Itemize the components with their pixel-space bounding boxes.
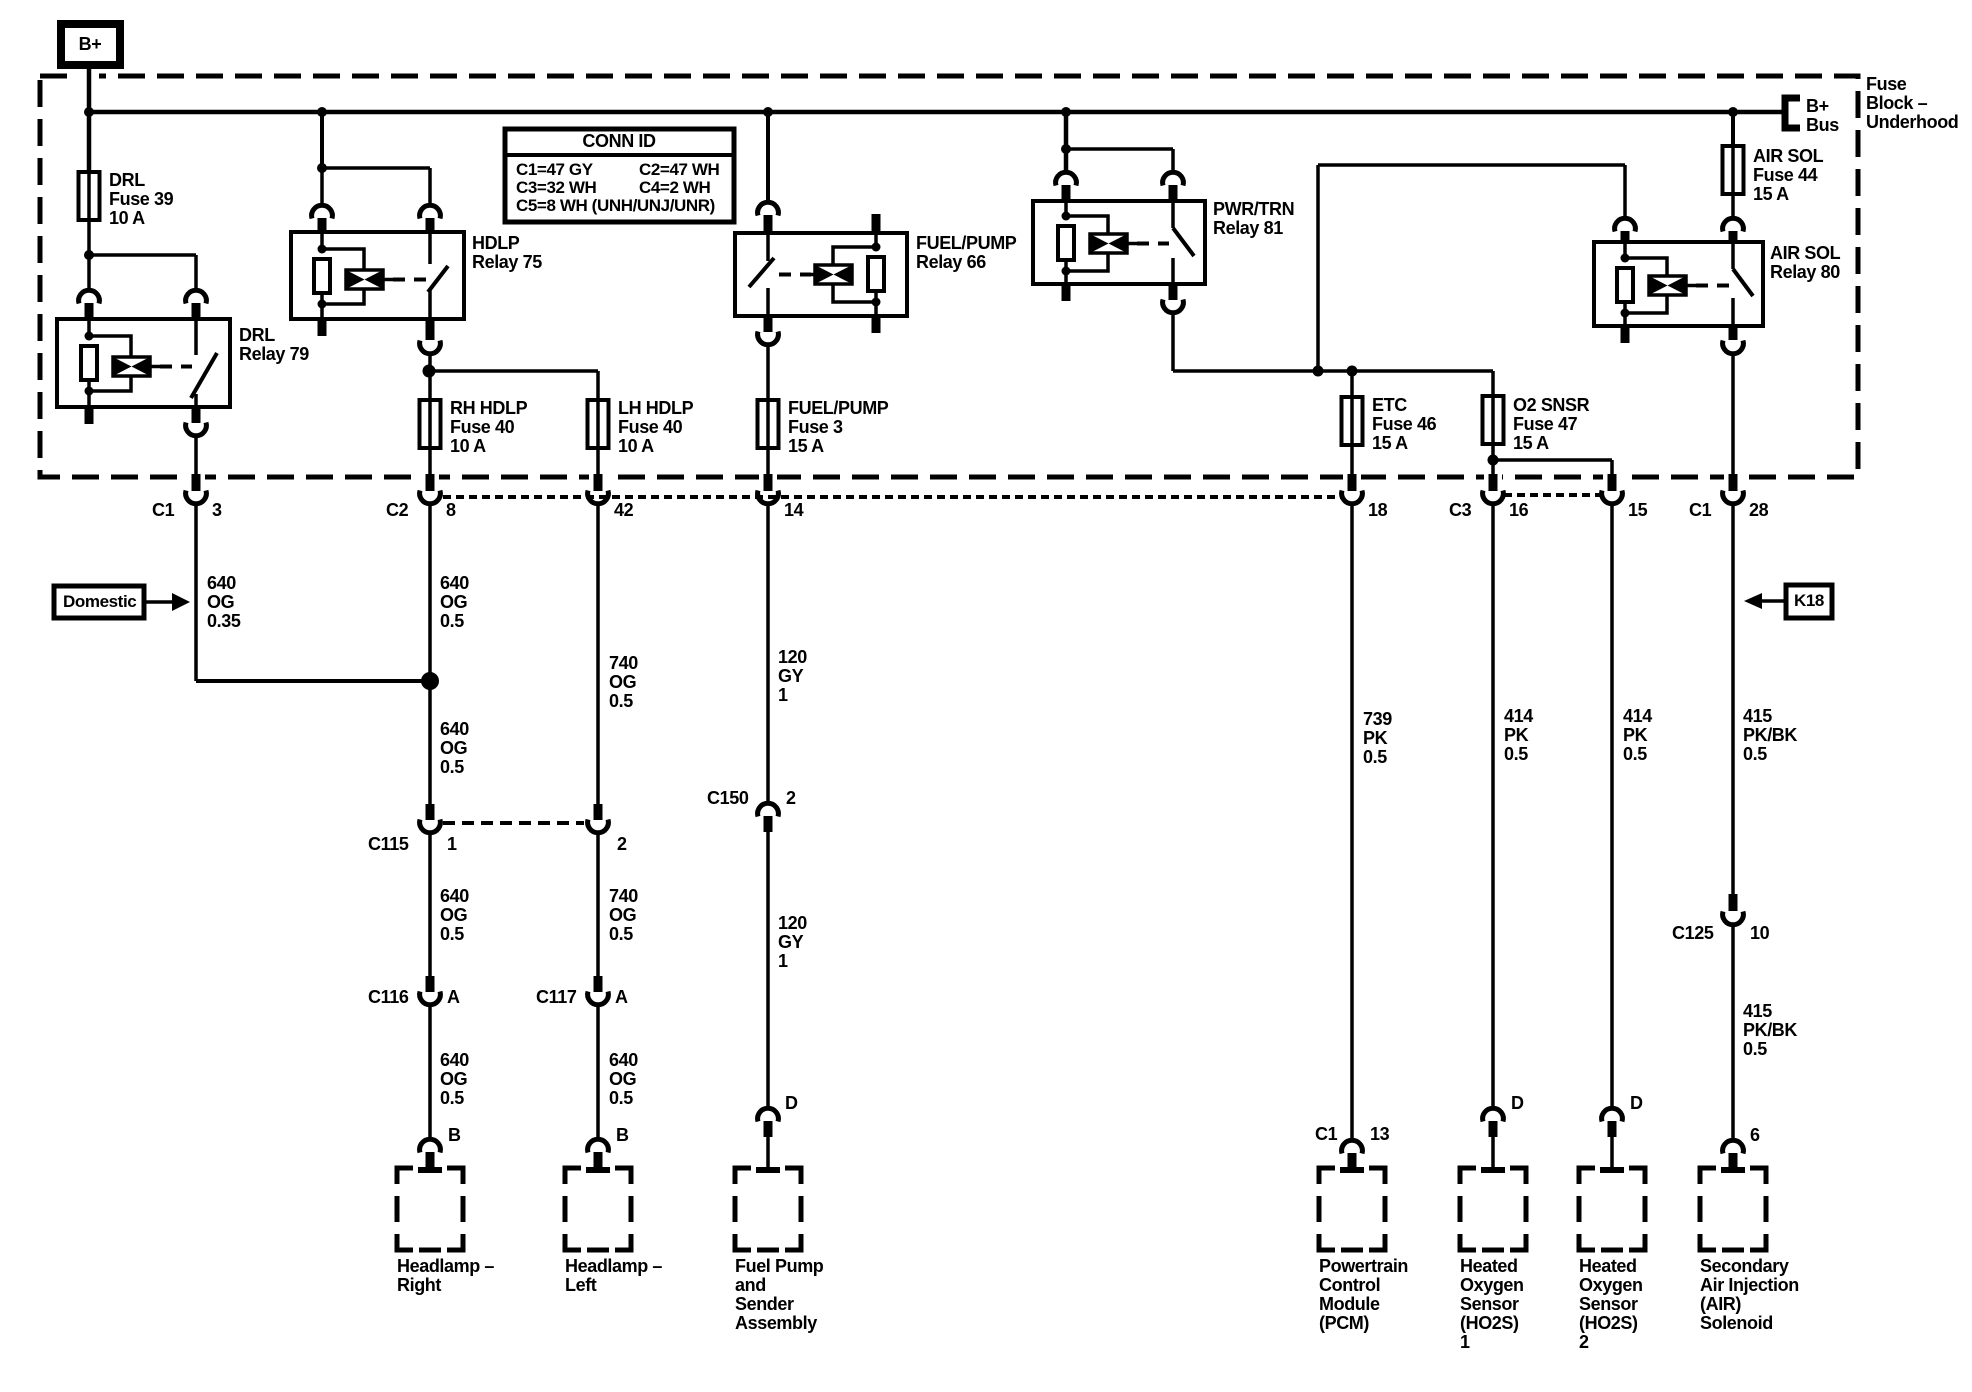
wire down to HDLP switch pin	[428, 168, 432, 205]
wire relay79 coil pin internal	[87, 319, 91, 336]
svg-text:Right: Right	[397, 1275, 441, 1295]
svg-text:(PCM): (PCM)	[1319, 1313, 1369, 1333]
svg-text:Fuel Pump: Fuel Pump	[735, 1256, 824, 1276]
svg-text:Domestic: Domestic	[63, 592, 136, 611]
relay DRL Relay 79 box	[57, 319, 230, 407]
connector pin B headlamp right	[420, 1139, 441, 1152]
svg-text:0.5: 0.5	[440, 757, 464, 777]
wire relay75 switch fixed contact	[428, 232, 432, 264]
connector pin arc relay66 switch input	[758, 202, 779, 215]
fuse FUEL/PUMP Fuse 3 15A	[766, 400, 770, 448]
CONN ID table header separator	[505, 153, 734, 157]
node junction HDLP feed split	[317, 163, 327, 173]
svg-text:Headlamp –: Headlamp –	[397, 1256, 494, 1276]
wire bus to PWR/TRN relay	[1064, 112, 1069, 172]
arrow K18 points to wire	[1762, 599, 1786, 603]
svg-text:C116: C116	[368, 987, 409, 1007]
svg-text:640: 640	[440, 1050, 469, 1070]
svg-text:B: B	[448, 1125, 461, 1145]
wire to ETC fuse 46	[1350, 371, 1354, 397]
wire 740 OG 0.5 from 42	[596, 504, 600, 804]
connector C2 pin 42	[594, 474, 603, 491]
svg-text:0.5: 0.5	[1623, 744, 1647, 764]
svg-text:Fuse: Fuse	[1866, 74, 1907, 94]
svg-text:120: 120	[778, 647, 807, 667]
component Heated Oxygen Sensor 2 box	[1579, 1168, 1645, 1250]
svg-text:PK: PK	[1504, 725, 1529, 745]
pin relay75 switch output stub	[426, 319, 435, 340]
svg-text:O2 SNSR: O2 SNSR	[1513, 395, 1590, 415]
wire LH fuse to connector 42	[596, 448, 600, 474]
svg-text:Air Injection: Air Injection	[1700, 1275, 1799, 1295]
terminal bar HO2S2	[1600, 1167, 1624, 1173]
wire B+ bus horizontal	[89, 110, 1782, 115]
connector pin arc relay80 switch output	[1723, 341, 1744, 354]
fuse O2 SNSR Fuse 47 15A	[1491, 396, 1495, 444]
Domestic option box	[54, 586, 144, 618]
node junction fuse 47 split	[1488, 455, 1499, 466]
wire relay75 coil link	[383, 278, 393, 282]
svg-text:2: 2	[1579, 1332, 1589, 1352]
svg-text:0.35: 0.35	[207, 611, 241, 631]
svg-text:DRL: DRL	[109, 170, 145, 190]
wire relay66 output to Fuse 3	[766, 345, 770, 400]
arrow Domestic points to wire	[144, 600, 172, 604]
svg-text:640: 640	[207, 573, 236, 593]
wire relay80 output to connector C1-28	[1731, 354, 1735, 474]
node bus junction at PWR/TRN feed	[1061, 107, 1071, 117]
connector pin arc relay81 coil input	[1056, 172, 1077, 185]
svg-text:640: 640	[440, 886, 469, 906]
svg-text:8: 8	[446, 500, 456, 520]
svg-text:A: A	[615, 987, 628, 1007]
connector pin D fuel pump	[758, 1108, 779, 1121]
svg-text:C2: C2	[386, 500, 409, 520]
svg-text:Sender: Sender	[735, 1294, 794, 1314]
connector C2 pin 18	[1348, 474, 1357, 491]
coil relay75 winding	[346, 270, 383, 289]
svg-text:OG: OG	[609, 905, 636, 925]
wire to O2 SNSR fuse 47	[1491, 371, 1495, 396]
svg-text:FUEL/PUMP: FUEL/PUMP	[788, 398, 889, 418]
svg-text:OG: OG	[609, 1069, 636, 1089]
dashed actuation link relay79	[160, 365, 192, 369]
connector C125 pin 10	[1729, 894, 1738, 911]
connector pin B headlamp left	[588, 1139, 609, 1152]
connector pin arc relay75 switch output	[420, 341, 441, 354]
node relay79 coil bottom	[85, 387, 94, 396]
svg-text:Relay 80: Relay 80	[1770, 262, 1840, 282]
svg-text:OG: OG	[207, 592, 234, 612]
svg-text:FUEL/PUMP: FUEL/PUMP	[916, 233, 1017, 253]
svg-text:C117: C117	[536, 987, 577, 1007]
svg-text:0.5: 0.5	[609, 924, 633, 944]
svg-text:K18: K18	[1794, 591, 1824, 610]
connector C115 pin 1	[426, 804, 435, 820]
pin relay66 coil ground stub	[872, 316, 881, 333]
svg-text:OG: OG	[440, 1069, 467, 1089]
dotted harness connector line C2 row	[443, 495, 1341, 499]
wire fuse 44 to AIR SOL relay switch	[1731, 194, 1735, 218]
terminal bar AIR solenoid	[1721, 1167, 1745, 1173]
wire relay75 switch to bottom	[428, 289, 432, 319]
svg-text:C1: C1	[152, 500, 175, 520]
connector pin arc relay81 switch input	[1163, 172, 1184, 185]
svg-text:OG: OG	[440, 738, 467, 758]
svg-text:640: 640	[440, 573, 469, 593]
svg-text:1: 1	[1460, 1332, 1470, 1352]
coil relay79 winding	[113, 357, 150, 376]
wire relay75 coil loop	[322, 249, 364, 319]
resistor relay80 coil suppression	[1617, 268, 1633, 302]
node junction ETC fuse tap	[1347, 366, 1358, 377]
svg-text:0.5: 0.5	[440, 1088, 464, 1108]
CONN ID table outer box	[505, 129, 734, 222]
svg-text:Underhood: Underhood	[1866, 112, 1958, 132]
svg-text:2: 2	[786, 788, 796, 808]
relay HDLP Relay 75 box	[291, 232, 464, 319]
svg-text:A: A	[447, 987, 460, 1007]
svg-text:Fuse 44: Fuse 44	[1753, 165, 1818, 185]
connector pin arc relay66 switch output	[758, 332, 779, 345]
wire relay81 coil loop	[1066, 216, 1108, 284]
pin relay79 switch output stub	[192, 407, 201, 423]
wire 739 PK 0.5 from 18 to PCM	[1350, 504, 1354, 1140]
component Heated Oxygen Sensor 1 box	[1460, 1168, 1526, 1250]
switch blade relay75	[428, 266, 448, 292]
wire relay66 switch to bottom	[766, 288, 770, 316]
svg-text:16: 16	[1509, 500, 1529, 520]
svg-text:C3=32 WH: C3=32 WH	[516, 178, 597, 197]
svg-text:10 A: 10 A	[618, 436, 654, 456]
svg-text:28: 28	[1749, 500, 1769, 520]
switch blade relay80	[1733, 269, 1753, 296]
node bus junction at HDLP feed	[317, 107, 327, 117]
wire relay81 switch pin internal	[1171, 201, 1175, 228]
wire fuse 3 to connector 14	[766, 448, 770, 474]
connector C1 pin 13 PCM	[1342, 1140, 1363, 1153]
node relay81 coil bottom	[1062, 267, 1071, 276]
coil relay81 winding	[1090, 234, 1127, 253]
wire stub to HO2S2 box	[1610, 1137, 1614, 1168]
connector C3 pin 16	[1489, 474, 1498, 491]
fuse LH HDLP Fuse 40 10A	[596, 400, 600, 448]
svg-text:Block –: Block –	[1866, 93, 1928, 113]
wire 740 OG 0.5 C115 to C117	[596, 833, 600, 976]
svg-text:0.5: 0.5	[609, 1088, 633, 1108]
wire B+ feed down to Fuse 39	[87, 65, 92, 172]
wire relay79 switch fixed contact	[194, 319, 198, 355]
svg-text:AIR SOL: AIR SOL	[1753, 146, 1824, 166]
svg-text:and: and	[735, 1275, 766, 1295]
svg-text:1: 1	[778, 685, 788, 705]
wire 120 GY 1 from 14	[766, 504, 770, 803]
connector C150 pin 2	[758, 803, 779, 816]
wire stub to fuel pump box	[766, 1137, 770, 1168]
wire 414 PK 0.5 from 15 to HO2S2	[1610, 504, 1614, 1108]
connector pin arc relay80 switch input	[1723, 218, 1744, 231]
svg-text:(HO2S): (HO2S)	[1579, 1313, 1638, 1333]
terminal bar headlamp right	[418, 1167, 442, 1173]
wire stub to HO2S1 box	[1491, 1137, 1495, 1168]
node relay80 coil top	[1621, 254, 1630, 263]
svg-text:C4=2 WH: C4=2 WH	[639, 178, 710, 197]
svg-text:C150: C150	[707, 788, 749, 808]
svg-text:D: D	[1511, 1093, 1524, 1113]
wire bus to HDLP relay	[320, 112, 324, 172]
svg-text:RH HDLP: RH HDLP	[450, 398, 528, 418]
wire RH fuse to connector C2-8	[428, 448, 432, 474]
wire fuse39 to DRL relay coil	[87, 220, 91, 290]
wire relay81 switch fixed bottom	[1171, 258, 1175, 284]
connector C2 pin 8	[426, 474, 435, 491]
node relay66 coil bottom	[872, 298, 881, 307]
connector C2 pin 14	[764, 474, 773, 491]
fuse AIR SOL Fuse 44 15A	[1731, 146, 1735, 194]
dashed actuation link relay81	[1137, 242, 1169, 246]
svg-text:15 A: 15 A	[788, 436, 824, 456]
wire relay81 coil pin internal	[1064, 201, 1068, 216]
svg-text:120: 120	[778, 913, 807, 933]
svg-text:Module: Module	[1319, 1294, 1380, 1314]
pin relay81 switch output stub	[1169, 284, 1178, 300]
svg-text:6: 6	[1750, 1125, 1760, 1145]
wire jog to DRL relay switch pin	[89, 253, 196, 257]
terminal bar PCM	[1340, 1167, 1364, 1173]
pin relay79 coil ground stub	[85, 407, 94, 424]
svg-text:B+: B+	[1806, 96, 1829, 116]
svg-text:13: 13	[1370, 1124, 1390, 1144]
svg-text:ETC: ETC	[1372, 395, 1407, 415]
resistor relay66 coil suppression	[868, 257, 884, 291]
svg-text:0.5: 0.5	[1743, 744, 1767, 764]
wire 414 PK 0.5 from C3-16 to HO2S1	[1491, 504, 1495, 1108]
wire relay80 coil link	[1686, 284, 1696, 288]
wire relay79 switch to bottom	[194, 394, 198, 407]
svg-text:Fuse 39: Fuse 39	[109, 189, 174, 209]
relay FUEL/PUMP Relay 66 box	[735, 233, 907, 316]
fuse ETC Fuse 46 15A	[1350, 397, 1354, 445]
pin relay81 coil ground stub	[1062, 284, 1071, 301]
svg-text:Sensor: Sensor	[1579, 1294, 1638, 1314]
svg-text:PK/BK: PK/BK	[1743, 1020, 1797, 1040]
svg-text:Control: Control	[1319, 1275, 1380, 1295]
wire 640 OG 0.5 C116 to headlamp	[428, 1005, 432, 1139]
pin relay80 coil ground stub	[1621, 326, 1630, 343]
node junction 640 OG splice	[421, 672, 439, 690]
node junction PWR/TRN feed split	[1061, 144, 1071, 154]
wire fuse 46 to connector 18	[1350, 445, 1354, 474]
wire jog to PWR/TRN switch pin	[1066, 147, 1173, 151]
wire relay66 link to coil	[811, 273, 815, 277]
svg-text:18: 18	[1368, 500, 1388, 520]
terminal bar headlamp left	[586, 1167, 610, 1173]
node relay75 coil bottom	[318, 300, 327, 309]
component Fuel Pump and Sender Assembly box	[735, 1168, 801, 1250]
pin relay66 switch output stub	[764, 316, 773, 332]
node relay66 coil top	[872, 243, 881, 252]
connector pin arc DRL relay switch input	[186, 290, 207, 303]
node junction RH/LH fuse split	[423, 365, 436, 378]
fuse block underhood dashed border	[40, 76, 1858, 477]
svg-text:15 A: 15 A	[1753, 184, 1789, 204]
svg-text:Relay 81: Relay 81	[1213, 218, 1283, 238]
svg-text:740: 740	[609, 653, 638, 673]
connector pin D HO2S2	[1602, 1108, 1623, 1121]
wire 120 GY 1 C150 to fuel pump	[766, 832, 770, 1108]
wire 640 OG 0.5 from C2-8	[428, 504, 432, 804]
wire relay81 output feeds fuses 46/47	[1173, 369, 1493, 373]
wire down to DRL relay switch pin	[194, 255, 198, 290]
wire relay79 output to connector C1-3	[194, 436, 198, 474]
wire relay80 coil pin internal	[1623, 242, 1627, 258]
svg-text:3: 3	[212, 500, 222, 520]
dashed connector link C115	[443, 821, 584, 825]
svg-text:Relay 66: Relay 66	[916, 252, 986, 272]
svg-text:PK: PK	[1623, 725, 1648, 745]
svg-text:0.5: 0.5	[609, 691, 633, 711]
svg-text:Solenoid: Solenoid	[1700, 1313, 1773, 1333]
svg-text:Fuse 47: Fuse 47	[1513, 414, 1578, 434]
node junction below fuse 39	[84, 250, 94, 260]
connector C3 pin 15	[1608, 474, 1617, 491]
svg-text:PK: PK	[1363, 728, 1388, 748]
wire down to AIR SOL relay coil pin	[1623, 165, 1627, 218]
dashed actuation link relay75	[393, 278, 426, 282]
switch blade relay66	[749, 258, 774, 287]
svg-text:415: 415	[1743, 1001, 1772, 1021]
svg-text:640: 640	[609, 1050, 638, 1070]
svg-text:10 A: 10 A	[109, 208, 145, 228]
component Secondary Air Injection Solenoid box	[1700, 1168, 1766, 1250]
dashed actuation link relay66	[779, 273, 811, 277]
wire relay75 coil pin internal	[320, 232, 324, 249]
svg-text:Assembly: Assembly	[735, 1313, 817, 1333]
svg-text:OG: OG	[440, 905, 467, 925]
relay PWR/TRN Relay 81 box	[1033, 201, 1205, 284]
svg-text:(HO2S): (HO2S)	[1460, 1313, 1519, 1333]
wire 415 PK/BK 0.5 C125 to AIR solenoid	[1731, 925, 1735, 1140]
svg-text:C1: C1	[1315, 1124, 1338, 1144]
B+ Bus right bracket terminal	[1785, 98, 1800, 128]
wire relay79 coil to switch link	[150, 365, 160, 369]
wire 640 OG 0.5 C117 to headlamp	[596, 1005, 600, 1139]
wire 415 PK/BK 0.5 from C1-28	[1731, 504, 1735, 894]
svg-text:414: 414	[1623, 706, 1652, 726]
connector C116 pin A	[426, 976, 435, 992]
svg-text:Bus: Bus	[1806, 115, 1839, 135]
svg-text:C1: C1	[1689, 500, 1712, 520]
svg-text:Sensor: Sensor	[1460, 1294, 1519, 1314]
svg-text:C5=8 WH (UNH/UNJ/UNR): C5=8 WH (UNH/UNJ/UNR)	[516, 196, 715, 215]
svg-text:1: 1	[778, 951, 788, 971]
svg-text:15 A: 15 A	[1513, 433, 1549, 453]
svg-text:C2=47 WH: C2=47 WH	[639, 160, 720, 179]
dotted harness connector line C3 row	[1504, 493, 1601, 497]
coil relay66 winding	[815, 265, 852, 284]
svg-text:14: 14	[784, 500, 804, 520]
wire relay80 switch pin internal	[1731, 242, 1735, 269]
node relay80 coil bottom	[1621, 309, 1630, 318]
terminal bar fuel pump	[756, 1167, 780, 1173]
connector C1 pin 3	[192, 474, 201, 491]
svg-text:OG: OG	[440, 592, 467, 612]
svg-text:OG: OG	[609, 672, 636, 692]
svg-text:D: D	[785, 1093, 798, 1113]
svg-text:GY: GY	[778, 932, 804, 952]
svg-text:Headlamp –: Headlamp –	[565, 1256, 662, 1276]
svg-text:C1=47 GY: C1=47 GY	[516, 160, 594, 179]
svg-text:Fuse 46: Fuse 46	[1372, 414, 1437, 434]
svg-text:10: 10	[1750, 923, 1770, 943]
svg-text:414: 414	[1504, 706, 1533, 726]
svg-text:10 A: 10 A	[450, 436, 486, 456]
wire relay81 coil link	[1127, 242, 1137, 246]
connector pin arc DRL relay coil input	[79, 290, 100, 303]
svg-text:Secondary: Secondary	[1700, 1256, 1789, 1276]
svg-text:15: 15	[1628, 500, 1648, 520]
svg-text:Fuse 3: Fuse 3	[788, 417, 843, 437]
svg-text:Relay 75: Relay 75	[472, 252, 542, 272]
svg-text:Fuse 40: Fuse 40	[618, 417, 683, 437]
svg-text:Fuse 40: Fuse 40	[450, 417, 515, 437]
wire fuse 47 down	[1491, 444, 1495, 474]
svg-text:DRL: DRL	[239, 325, 275, 345]
relay AIR SOL Relay 80 box	[1594, 242, 1763, 326]
svg-text:2: 2	[617, 834, 627, 854]
connector pin arc relay81 switch output	[1163, 300, 1184, 313]
svg-text:Oxygen: Oxygen	[1460, 1275, 1524, 1295]
svg-text:CONN ID: CONN ID	[582, 131, 656, 151]
svg-text:Heated: Heated	[1579, 1256, 1637, 1276]
B+ power terminal box	[61, 24, 120, 65]
connector pin arc HDLP relay coil input	[312, 205, 333, 218]
connector pin 6 AIR solenoid	[1723, 1140, 1744, 1153]
wire fuse 47 branch to pin 15	[1493, 458, 1612, 462]
wire 640 OG 0.5 C115 to C116	[428, 833, 432, 976]
wire bus to AIR SOL fuse 44	[1731, 112, 1735, 146]
wire relay66 coil loop	[833, 233, 876, 316]
fuse RH HDLP Fuse 40 10A	[428, 400, 432, 448]
component Headlamp - Left box	[565, 1168, 631, 1250]
svg-text:1: 1	[447, 834, 457, 854]
node bus junction at FUEL/PUMP feed	[763, 107, 773, 117]
svg-text:Relay 79: Relay 79	[239, 344, 309, 364]
switch blade relay79	[191, 353, 217, 398]
border gap for B+ feed wire	[79, 72, 99, 80]
svg-text:415: 415	[1743, 706, 1772, 726]
svg-text:Heated: Heated	[1460, 1256, 1518, 1276]
svg-text:0.5: 0.5	[1504, 744, 1528, 764]
node bus junction at DRL feed	[84, 107, 94, 117]
svg-text:Left: Left	[565, 1275, 597, 1295]
resistor relay79 coil suppression	[81, 346, 97, 380]
fuse DRL Fuse 39 10A	[87, 172, 91, 220]
svg-text:GY: GY	[778, 666, 804, 686]
connector C1 pin 28	[1729, 474, 1738, 491]
wire relay75 output down to fuses	[428, 354, 432, 400]
connector C117 pin A	[594, 976, 603, 992]
node junction to AIR SOL relay coil	[1313, 366, 1324, 377]
wire relay81 output down	[1171, 313, 1175, 371]
svg-text:0.5: 0.5	[1743, 1039, 1767, 1059]
svg-text:740: 740	[609, 886, 638, 906]
wire down to LH fuse	[596, 371, 600, 400]
wire to LH HDLP fuse	[429, 369, 598, 373]
svg-text:Oxygen: Oxygen	[1579, 1275, 1643, 1295]
wire relay80 coil loop	[1625, 258, 1667, 326]
svg-text:PK/BK: PK/BK	[1743, 725, 1797, 745]
